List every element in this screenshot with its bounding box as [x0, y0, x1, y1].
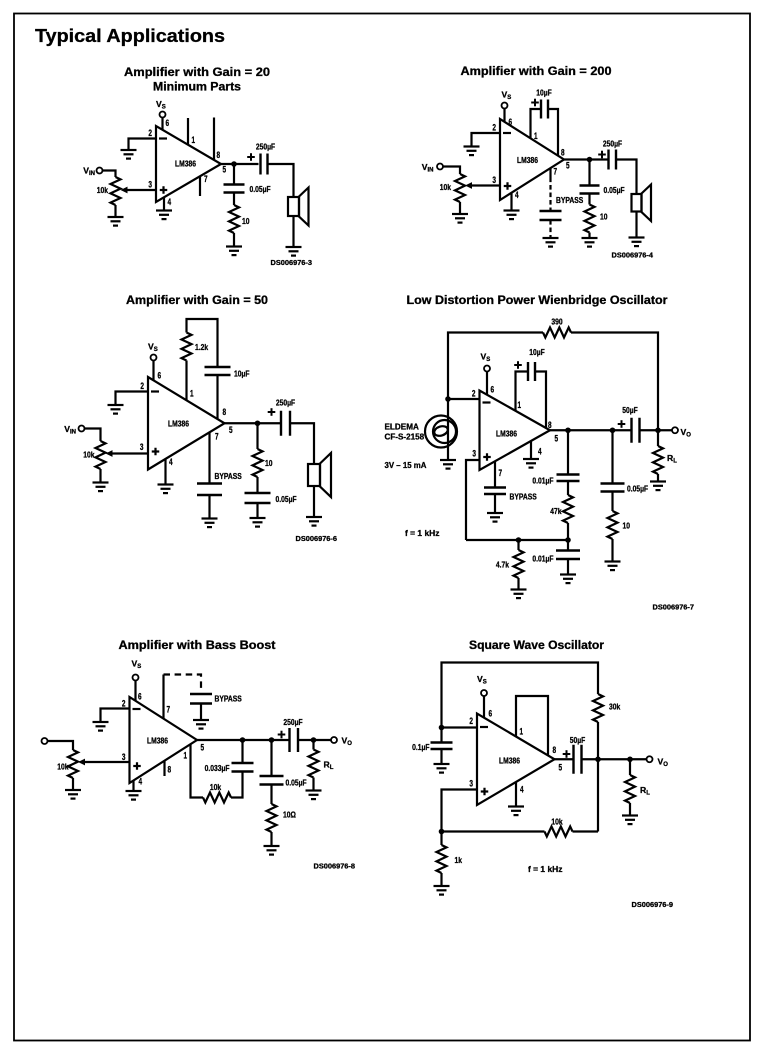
ground at pin 4 — [156, 211, 172, 220]
input terminal VIN — [79, 426, 85, 432]
wire wiper to pin 3 — [85, 761, 130, 763]
potentiometer R1 10k body — [96, 441, 106, 469]
capacitor C4 250µF — [290, 728, 299, 752]
wire pin 4 to ground — [515, 782, 517, 807]
wire R2 to ground — [233, 233, 235, 247]
output node junction — [587, 157, 593, 163]
svg-text:2: 2 — [469, 716, 473, 726]
feedback wire right — [571, 333, 658, 431]
output wire pin 5 — [550, 429, 632, 431]
wire pin 7 to bypass cap — [208, 432, 210, 483]
supply terminal VS — [151, 355, 157, 361]
inverting input − mark — [483, 401, 491, 403]
wire pin 2 to ground — [129, 139, 157, 151]
ground under R4 — [434, 886, 450, 895]
speaker LS1 — [632, 185, 652, 222]
non-inverting input + mark — [152, 448, 160, 456]
wire node to R4 — [440, 832, 442, 846]
svg-text:DS006976-4: DS006976-4 — [612, 251, 654, 260]
svg-text:1: 1 — [518, 400, 522, 410]
resistor R4 4.7k — [514, 550, 524, 578]
input terminal VIN — [437, 164, 443, 170]
ground under R2 — [582, 238, 598, 247]
node bottom / R4 — [516, 537, 522, 543]
wire C1 to speaker — [267, 164, 294, 197]
inverting input − mark — [151, 390, 159, 392]
wire pin 4 to ground — [510, 193, 512, 211]
wire pin 2 to ground — [101, 709, 130, 723]
node pin 2 / C1 — [439, 725, 445, 731]
node pin 2 / lamp — [445, 396, 451, 402]
ground under lamp — [440, 460, 456, 469]
svg-text:0.05µF: 0.05µF — [276, 494, 297, 504]
svg-text:3: 3 — [472, 449, 476, 459]
ground under RL — [650, 482, 666, 491]
C4 polarity + — [278, 731, 286, 739]
ground under pot — [108, 217, 124, 226]
resistor R5 390 — [543, 328, 571, 338]
wire node to RL — [312, 740, 314, 750]
svg-text:5: 5 — [201, 743, 205, 753]
svg-text:VO: VO — [658, 757, 669, 769]
inverting input − mark — [503, 132, 511, 134]
wire VS to pin 6 — [134, 681, 136, 701]
resistor R2 1.2k — [182, 333, 192, 361]
svg-text:6: 6 — [138, 692, 142, 702]
C3 polarity + — [598, 151, 606, 159]
ground at pin 2 — [121, 150, 137, 159]
resistor R2 30k — [593, 694, 603, 722]
capacitor C2 50µF — [574, 745, 582, 774]
resistor RL — [625, 775, 635, 803]
node output / C1 — [240, 737, 246, 743]
svg-text:4: 4 — [168, 197, 172, 207]
output node junction — [255, 420, 261, 426]
capacitor C1 0.1µF — [431, 743, 453, 750]
svg-text:Amplifier with Bass Boost: Amplifier with Bass Boost — [119, 640, 276, 652]
non-inverting input + mark — [160, 186, 168, 194]
C1 polarity + — [514, 361, 522, 369]
ground under C4 — [560, 575, 576, 584]
resistor R2 10 — [229, 205, 239, 233]
svg-text:VO: VO — [681, 427, 692, 439]
capacitor C3 0.05µF — [260, 776, 284, 785]
op-amp U1 LM386 body — [130, 697, 198, 783]
wire C3 to ground — [256, 503, 258, 518]
svg-text:1: 1 — [190, 389, 194, 399]
svg-text:VIN: VIN — [64, 424, 76, 436]
svg-text:10k: 10k — [440, 182, 451, 192]
svg-text:6: 6 — [166, 118, 170, 128]
wire wiper to pin 3 — [112, 452, 148, 454]
svg-text:0.1µF: 0.1µF — [412, 742, 429, 752]
wire pin 1 to C1 — [531, 109, 542, 138]
svg-text:DS006976-8: DS006976-8 — [314, 862, 356, 871]
svg-text:f = 1 kHz: f = 1 kHz — [528, 864, 563, 874]
svg-text:0.05µF: 0.05µF — [286, 778, 307, 788]
wire VS to pin 6 — [483, 696, 485, 718]
wire node to C2 — [233, 164, 235, 185]
wire pot to ground — [72, 778, 74, 790]
wire C5 to R6 — [611, 492, 613, 512]
output wire pin 5 — [197, 739, 290, 741]
wire pin 4 to ground — [164, 459, 166, 485]
svg-text:RL: RL — [667, 453, 677, 465]
dashed wire bypass cap to ground — [549, 220, 551, 238]
svg-text:LM386: LM386 — [499, 756, 520, 766]
wire RL to ground — [312, 778, 314, 791]
svg-text:RL: RL — [324, 760, 334, 772]
svg-text:10µF: 10µF — [529, 347, 545, 357]
wire pin 2 to node — [442, 726, 478, 728]
wire speaker to ground — [313, 487, 315, 518]
node pin 3 / R4 / R3 — [439, 829, 445, 835]
capacitor C2 0.05µF — [224, 185, 245, 193]
svg-text:LM386: LM386 — [147, 736, 168, 746]
svg-text:LM386: LM386 — [496, 429, 517, 439]
svg-text:6: 6 — [491, 385, 495, 395]
svg-text:VS: VS — [502, 90, 512, 102]
resistor R2 10k — [203, 793, 231, 803]
svg-text:2: 2 — [122, 699, 126, 709]
svg-text:250µF: 250µF — [276, 398, 295, 408]
svg-text:DS006976-3: DS006976-3 — [271, 258, 313, 267]
svg-text:4: 4 — [139, 777, 143, 787]
wire R6 to ground — [611, 539, 613, 562]
wire C3 to speaker — [616, 160, 637, 195]
svg-text:250µF: 250µF — [603, 139, 622, 149]
wire R2 to C1 — [231, 772, 243, 798]
wire pot to ground — [114, 205, 116, 217]
svg-text:2: 2 — [148, 128, 152, 138]
svg-text:Minimum Parts: Minimum Parts — [153, 82, 241, 94]
svg-text:VS: VS — [156, 99, 166, 111]
feedback wire left — [448, 333, 543, 400]
svg-text:RL: RL — [640, 785, 650, 797]
wire wiper to pin 3 — [472, 184, 501, 186]
resistor R4 10Ω — [267, 804, 277, 832]
svg-text:VS: VS — [477, 674, 487, 686]
output node junction — [231, 161, 237, 167]
svg-text:7: 7 — [215, 432, 219, 442]
svg-text:VO: VO — [342, 736, 353, 748]
ground under speaker — [286, 247, 302, 256]
wire node to RL — [657, 430, 659, 446]
C6 polarity + — [618, 420, 626, 428]
svg-text:LM386: LM386 — [175, 159, 196, 169]
wire VS to pin 6 — [486, 372, 488, 395]
dashed wire pin 7 to bypass cap — [549, 178, 551, 212]
svg-text:2: 2 — [140, 381, 144, 391]
op-amp U1 LM386 body — [148, 377, 225, 470]
capacitor C1 10µF — [528, 362, 535, 381]
ground under C1 — [434, 764, 450, 773]
svg-text:Square Wave Oscillator: Square Wave Oscillator — [469, 640, 605, 652]
ground under pot — [452, 214, 468, 223]
wire C4 to speaker — [290, 423, 314, 464]
ground at pin 4 — [508, 807, 524, 816]
svg-text:3: 3 — [469, 779, 473, 789]
ground at pin 4 — [158, 485, 174, 494]
svg-text:0.033µF: 0.033µF — [205, 763, 230, 773]
svg-text:4: 4 — [515, 190, 519, 200]
svg-text:7: 7 — [554, 167, 558, 177]
wire bypass cap to ground — [494, 494, 496, 513]
svg-text:10Ω: 10Ω — [283, 810, 296, 820]
svg-text:3: 3 — [122, 752, 126, 762]
svg-text:Amplifier with Gain = 200: Amplifier with Gain = 200 — [461, 66, 612, 78]
wire pot to ground — [99, 469, 101, 483]
svg-text:2: 2 — [472, 389, 476, 399]
inverting input − mark — [159, 137, 167, 139]
wire node to C1 — [440, 728, 442, 743]
capacitor C1 0.033µF — [232, 763, 254, 772]
pin 7 stub — [199, 176, 201, 196]
svg-text:5: 5 — [566, 161, 570, 171]
svg-text:VIN: VIN — [422, 162, 434, 174]
svg-text:47k: 47k — [550, 506, 561, 516]
ground under speaker — [629, 238, 645, 247]
wire C1 to ground — [440, 749, 442, 764]
wire input to potentiometer — [48, 741, 74, 750]
svg-text:10: 10 — [265, 458, 273, 468]
svg-text:1: 1 — [534, 131, 538, 141]
svg-text:10k: 10k — [210, 782, 221, 792]
wire R3 to feedback — [573, 830, 599, 832]
svg-text:0.05µF: 0.05µF — [627, 484, 648, 494]
node RL / VO — [311, 737, 317, 743]
resistor R3 47k — [563, 495, 573, 523]
wire VIN to potentiometer — [103, 171, 116, 178]
op-amp U1 LM386 body — [156, 126, 221, 202]
svg-text:10k: 10k — [551, 817, 562, 827]
capacitor C2 bypass — [190, 694, 212, 704]
wire R3 to C3 — [256, 477, 258, 493]
supply terminal VS — [484, 366, 490, 372]
wire node to C5 — [611, 430, 613, 483]
svg-text:10: 10 — [623, 521, 631, 531]
wire C1 to pin 8 — [548, 109, 558, 156]
resistor RL — [309, 750, 319, 778]
wire node to C3 — [270, 740, 272, 776]
wire C1 to pin 8 — [535, 372, 546, 429]
pin 1 stub — [187, 118, 189, 145]
supply terminal VS — [502, 103, 508, 109]
wire node to R3 — [442, 830, 545, 832]
svg-text:VS: VS — [148, 342, 158, 354]
capacitor C6 50µF — [632, 418, 640, 443]
output terminal VO — [647, 756, 653, 762]
svg-text:BYPASS: BYPASS — [215, 471, 243, 481]
svg-text:8: 8 — [168, 765, 172, 775]
svg-text:2: 2 — [492, 123, 496, 133]
wire pin 4 to ground — [163, 197, 165, 210]
ground under R6 — [605, 562, 621, 571]
svg-text:VS: VS — [481, 352, 491, 364]
op-amp U1 LM386 body — [480, 391, 551, 471]
svg-text:10: 10 — [600, 212, 608, 222]
resistor R3 10 — [253, 449, 263, 477]
svg-text:7: 7 — [204, 174, 208, 184]
ground under C3 — [250, 518, 266, 527]
svg-text:DS006976-7: DS006976-7 — [653, 603, 695, 612]
svg-text:390: 390 — [551, 317, 562, 327]
pot wiper arrow — [121, 187, 128, 194]
feedback wire top — [442, 663, 599, 728]
svg-text:8: 8 — [217, 150, 221, 160]
svg-text:5: 5 — [555, 434, 559, 444]
capacitor C1 250µF — [261, 154, 268, 175]
ground under speaker — [306, 517, 322, 526]
wire node to C4 — [567, 540, 569, 551]
wire pin 1 to C1 — [516, 372, 529, 411]
capacitor C4 0.01µF — [556, 551, 580, 560]
wire C6 to VO — [640, 429, 673, 431]
svg-text:4: 4 — [538, 447, 542, 457]
svg-text:CF-S-2158: CF-S-2158 — [385, 432, 425, 442]
ground at pin 2 — [464, 147, 480, 156]
supply terminal VS — [133, 675, 139, 681]
svg-text:50µF: 50µF — [570, 735, 586, 745]
ground under bypass cap — [543, 238, 559, 247]
capacitor C3 0.05µF — [245, 493, 271, 503]
svg-text:8: 8 — [548, 420, 552, 430]
wire R4 to ground — [440, 873, 442, 886]
node RL / VO — [627, 756, 633, 762]
lamp ELDEMA CF-S-2158 — [425, 416, 457, 448]
wire pin 1 to pin 8 — [516, 696, 548, 755]
node output / C5 branch — [610, 427, 616, 433]
pin 8 stub — [163, 761, 165, 776]
svg-text:7: 7 — [499, 468, 503, 478]
speaker LS1 — [308, 453, 331, 497]
svg-text:ELDEMA: ELDEMA — [385, 422, 419, 432]
svg-text:LM386: LM386 — [168, 419, 189, 429]
wire C3 to R3 — [567, 481, 569, 495]
wire R3 to bottom node — [567, 523, 569, 540]
wire C4 to VO — [298, 739, 331, 741]
wire C2 to R2 — [233, 192, 235, 205]
svg-text:DS006976-9: DS006976-9 — [632, 900, 674, 909]
pot wiper arrow — [465, 182, 472, 189]
ground under bypass cap — [193, 720, 209, 729]
wire C4 to ground — [567, 559, 569, 575]
svg-text:1: 1 — [192, 135, 196, 145]
op-amp U1 LM386 body — [477, 714, 555, 806]
svg-text:250µF: 250µF — [256, 142, 275, 152]
svg-text:BYPASS: BYPASS — [215, 694, 243, 704]
capacitor C2 bypass — [197, 484, 222, 496]
svg-text:3: 3 — [140, 442, 144, 452]
wire C4 to R2 — [588, 194, 590, 205]
svg-text:4: 4 — [520, 785, 524, 795]
pin 7 stub — [162, 675, 164, 719]
wire VIN to potentiometer — [85, 429, 101, 442]
capacitor C3 250µF — [609, 150, 617, 170]
svg-text:5: 5 — [223, 165, 227, 175]
ground under pot — [65, 790, 81, 799]
wire pin 7 to bypass cap — [494, 461, 496, 487]
svg-text:0.05µF: 0.05µF — [250, 184, 271, 194]
wire C1 to output node — [241, 740, 243, 763]
C1 polarity + — [531, 99, 539, 107]
svg-text:Typical Applications: Typical Applications — [35, 26, 225, 46]
wire bypass cap to ground — [200, 704, 202, 721]
wire pin 4 to ground — [530, 441, 532, 459]
speaker LS1 — [288, 188, 309, 226]
pot wiper arrow — [106, 450, 113, 457]
ground under R4 — [511, 590, 527, 599]
ground under bypass cap — [202, 519, 218, 528]
svg-text:DS006976-6: DS006976-6 — [296, 534, 338, 543]
svg-text:7: 7 — [167, 705, 171, 715]
svg-text:1.2k: 1.2k — [195, 342, 208, 352]
svg-text:10µF: 10µF — [536, 88, 552, 98]
wire C1 to pin 8 — [216, 375, 218, 419]
op-amp U1 LM386 body — [500, 119, 564, 200]
wire R2 over to C1 — [187, 319, 218, 367]
svg-text:10k: 10k — [57, 762, 68, 772]
ground at pin 2 — [93, 722, 109, 731]
output wire pin 5 — [564, 158, 609, 160]
wire RL to ground — [657, 474, 659, 482]
wire node to C4 — [588, 160, 590, 186]
svg-text:30k: 30k — [609, 702, 620, 712]
non-inverting input + mark — [483, 453, 491, 461]
svg-text:VS: VS — [132, 659, 142, 671]
resistor R4 1k — [437, 845, 447, 873]
svg-text:0.01µF: 0.01µF — [532, 476, 553, 486]
wire R4 to ground — [517, 578, 519, 590]
output terminal VO — [331, 737, 337, 743]
ground at pin 2 — [108, 405, 124, 414]
output terminal VO — [672, 427, 678, 433]
svg-text:4: 4 — [169, 457, 173, 467]
ground under RL — [306, 791, 322, 800]
wire pin 3 down — [466, 460, 480, 540]
svg-text:3V – 15 mA: 3V – 15 mA — [385, 460, 427, 470]
svg-text:f = 1 kHz: f = 1 kHz — [405, 528, 440, 538]
resistor R3 10k — [545, 827, 573, 837]
inverting input − mark — [133, 708, 141, 710]
capacitor C5 0.05µF — [601, 484, 625, 492]
wire pin 1 to R2 — [185, 361, 187, 401]
svg-text:3: 3 — [492, 175, 496, 185]
wire node to R3 — [256, 423, 258, 449]
capacitor C4 250µF — [281, 411, 290, 436]
svg-text:6: 6 — [489, 709, 493, 719]
supply terminal VS — [160, 112, 166, 118]
wire pin 2 to ground — [116, 392, 149, 406]
svg-text:Low Distortion Power Wienbridg: Low Distortion Power Wienbridge Oscillat… — [407, 295, 669, 307]
wire node to R4 — [517, 540, 519, 550]
wire pot to ground — [459, 202, 461, 214]
svg-text:3: 3 — [148, 180, 152, 190]
resistor R2 10 — [585, 205, 595, 233]
wire VS to pin 6 — [503, 109, 505, 122]
resistor R6 10 — [608, 511, 618, 539]
potentiometer R1 10k body — [455, 174, 465, 202]
svg-text:8: 8 — [561, 148, 565, 158]
wire VS to pin 6 — [161, 118, 163, 130]
svg-text:6: 6 — [158, 371, 162, 381]
C4 polarity + — [268, 408, 276, 416]
svg-text:4.7k: 4.7k — [496, 560, 509, 570]
wire R2 to ground — [588, 233, 590, 239]
svg-text:10µF: 10µF — [234, 369, 250, 379]
ground under R4 — [264, 846, 280, 855]
output wire pin 5 — [221, 163, 259, 165]
